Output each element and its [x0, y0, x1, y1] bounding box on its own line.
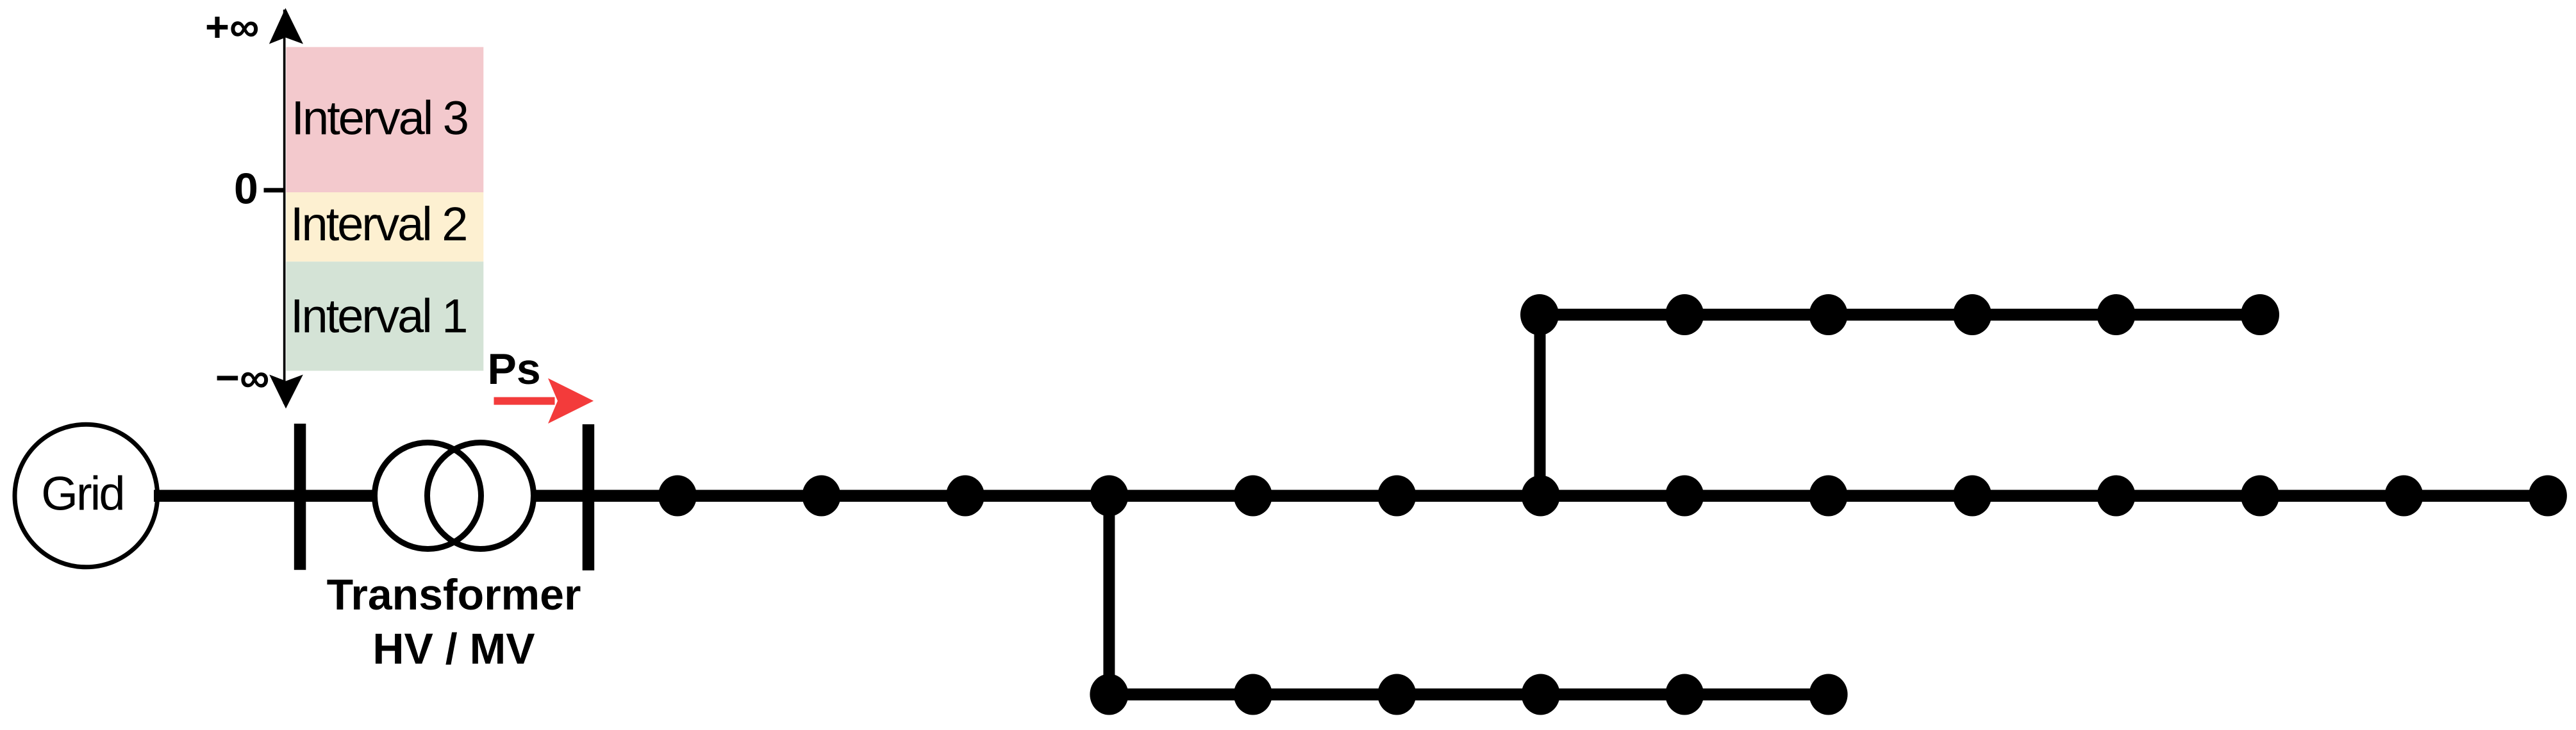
main feeder wire	[594, 490, 2548, 502]
node M4 junction	[1090, 476, 1128, 517]
node M2	[802, 476, 841, 517]
svg-text:Interval 1: Interval 1	[290, 290, 466, 343]
node M12	[2241, 476, 2279, 517]
svg-text:−∞: −∞	[215, 354, 269, 401]
Ps arrow shaft	[494, 397, 555, 405]
node T3	[1809, 294, 1848, 335]
node M3	[946, 476, 985, 517]
svg-text:Grid: Grid	[41, 467, 123, 520]
node T2	[1665, 294, 1704, 335]
Ps arrow head	[548, 378, 594, 424]
svg-text:Interval 2: Interval 2	[290, 197, 466, 251]
top branch wire	[1540, 309, 2260, 321]
drop wire to bottom branch	[1103, 496, 1115, 695]
node B2	[1234, 674, 1272, 715]
node M7 junction	[1522, 476, 1560, 517]
node M13	[2384, 476, 2423, 517]
node B6	[1809, 674, 1848, 715]
node B5	[1665, 674, 1704, 715]
main feeder nodes	[658, 476, 2567, 517]
node M5	[1234, 476, 1272, 517]
riser wire to top branch	[1534, 315, 1546, 496]
svg-text:HV / MV: HV / MV	[372, 625, 535, 674]
bottom branch nodes	[1090, 674, 1847, 715]
axis arrow up	[269, 8, 303, 44]
wire grid to busbar1	[154, 490, 295, 502]
node T6	[2241, 294, 2279, 335]
node M14	[2529, 476, 2567, 517]
interval 2 band	[286, 192, 483, 261]
svg-text:+∞: +∞	[205, 3, 259, 50]
node B1 corner	[1090, 674, 1128, 715]
svg-text:Ps: Ps	[488, 345, 541, 394]
axis line	[283, 10, 286, 404]
node T1 corner	[1520, 294, 1559, 335]
interval 3 band	[286, 47, 483, 192]
grid source circle	[15, 424, 158, 567]
svg-text:0: 0	[234, 164, 258, 213]
busbar 1 HV	[294, 424, 306, 570]
svg-text:Interval 3: Interval 3	[292, 92, 467, 145]
tick 0	[264, 188, 285, 192]
busbar 2 MV	[583, 424, 595, 570]
transformer HV/MV winding 1	[375, 443, 481, 549]
node M9	[1809, 476, 1848, 517]
node M8	[1665, 476, 1704, 517]
node B4	[1522, 674, 1560, 715]
wire transformer to busbar2	[534, 490, 583, 502]
node M6	[1377, 476, 1416, 517]
top branch nodes	[1520, 294, 2279, 335]
node B3	[1377, 674, 1416, 715]
interval 1 band	[286, 261, 483, 370]
axis arrow down	[269, 375, 303, 409]
node M1	[658, 476, 697, 517]
node M11	[2097, 476, 2136, 517]
bottom branch wire	[1109, 688, 1829, 701]
node M10	[1953, 476, 1991, 517]
node T4	[1953, 294, 1991, 335]
transformer HV/MV winding 2	[428, 443, 534, 549]
node T5	[2097, 294, 2136, 335]
svg-text:Transformer: Transformer	[327, 570, 581, 619]
wire busbar1 to transformer	[306, 490, 374, 502]
